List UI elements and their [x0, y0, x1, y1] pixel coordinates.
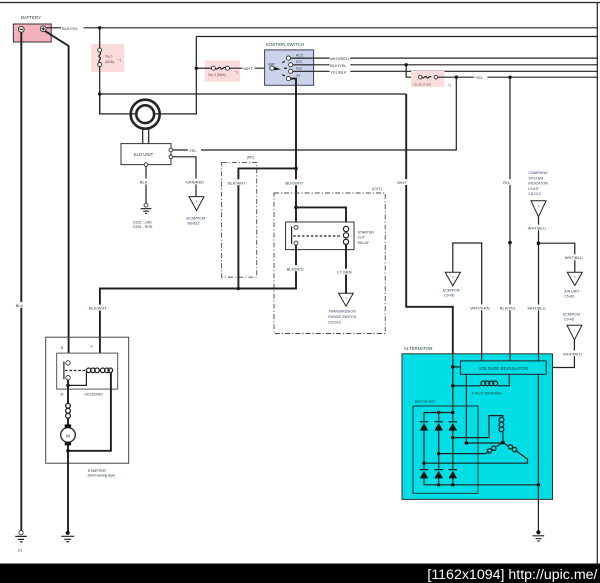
svg-text:TRANSMISSION: TRANSMISSION [328, 310, 356, 314]
svg-text:*1: *1 [118, 59, 121, 63]
svg-text:YEL: YEL [503, 180, 511, 185]
connector arrow ECM/PCM (alternator FR) [567, 325, 582, 340]
connector arrow A/N unit [567, 272, 582, 285]
node motor ground junction [66, 449, 70, 453]
svg-text:ALTERNATOR: ALTERNATOR [404, 346, 433, 351]
svg-text:LIGHT: LIGHT [528, 187, 539, 191]
svg-text:RECTIFIER: RECTIFIER [415, 399, 436, 404]
svg-text:(MT): (MT) [247, 156, 255, 160]
svg-text:M: M [60, 393, 63, 397]
wire WHT/RED regulator to ECM/PCM [546, 340, 574, 368]
svg-text:WHT/BLU: WHT/BLU [528, 306, 546, 311]
starter M1 outer box [46, 337, 129, 463]
stator neutral node [501, 441, 505, 445]
wire BLK/YEL battery feed [46, 27, 597, 29]
wire main feed horizontal to alternator WHT [100, 93, 407, 95]
svg-text:YEL: YEL [189, 148, 197, 153]
wire WHT/RED ACC output [291, 57, 598, 59]
wire battery negative BLK [20, 32, 22, 530]
bottom banner [0, 564, 600, 583]
connector arrow ECM/PCM (alternator C) [445, 272, 460, 286]
diode D3 [449, 413, 458, 422]
svg-text:BLK: BLK [16, 303, 24, 308]
ground G1 battery [19, 531, 23, 535]
wire motor to ground [67, 445, 69, 531]
svg-text:WHT/BLU: WHT/BLU [565, 255, 583, 260]
ELD unit [121, 144, 171, 165]
rectifier top bus [424, 412, 453, 414]
svg-text:FIELD WINDING: FIELD WINDING [472, 391, 501, 396]
node fuse No.1 lower junction [98, 92, 101, 95]
diode D5 [434, 471, 443, 479]
starter motor brushes [65, 424, 71, 429]
wire regulator to stator neutral [466, 374, 503, 443]
diode D1 [420, 413, 429, 422]
svg-text:YEL: YEL [476, 75, 484, 80]
ground starter [66, 531, 70, 535]
stator coil V [486, 443, 503, 454]
node M terminal [66, 384, 70, 388]
svg-text:VOLTAGE REGULATOR: VOLTAGE REGULATOR [479, 366, 529, 371]
relay contact [294, 225, 298, 229]
svg-text:CUT: CUT [358, 236, 366, 240]
connector arrow charging system indicator light [531, 201, 546, 217]
wire BLK/YEL IG1 output [293, 64, 598, 66]
wire YEL/BLK IG2 output [293, 70, 598, 72]
svg-text:G201 : LHD: G201 : LHD [133, 220, 152, 224]
battery negative terminal [18, 26, 24, 32]
svg-text:RELAY: RELAY [358, 241, 370, 245]
wire regulator ground leg [537, 374, 539, 485]
wire WHT/BLU to regulator [538, 217, 540, 361]
wire YEL / BLK/YEL to regulator [509, 77, 511, 361]
svg-text:(80A): (80A) [105, 60, 114, 64]
svg-text:BLK/YEL: BLK/YEL [330, 63, 347, 68]
svg-text:BLK/YEL: BLK/YEL [500, 306, 517, 311]
battery positive terminal [40, 26, 46, 32]
svg-text:[1162x1094] http://upic.me/: [1162x1094] http://upic.me/ [427, 567, 597, 583]
top page border [0, 2, 600, 4]
terminal ST [286, 77, 290, 81]
stator phase W tap [422, 462, 425, 465]
wire ELD sensor leads [143, 127, 149, 144]
diode D2 [434, 413, 443, 422]
ELD current sensor donut [131, 100, 160, 129]
svg-text:No.15 (7.5A): No.15 (7.5A) [414, 83, 432, 87]
svg-text:SOLENOID: SOLENOID [84, 393, 103, 397]
ground alternator [536, 530, 540, 534]
svg-text:WHT/RED: WHT/RED [563, 351, 582, 356]
voltage regulator [461, 361, 547, 374]
solenoid pull-in coil [86, 368, 91, 373]
wire BLK/RED relay contact to starter [100, 245, 296, 371]
wire battery positive cable to starter [45, 31, 69, 361]
wire alternator case ground [537, 485, 539, 531]
wire YEL down to ELD unit [173, 77, 457, 150]
wire upper bus [196, 36, 597, 38]
wire relay coil feed [296, 207, 346, 226]
svg-text:M: M [66, 433, 70, 439]
starter cut relay K1 [286, 222, 354, 250]
wires entering alternator [453, 354, 539, 367]
svg-text:IGNITION SWITCH: IGNITION SWITCH [266, 42, 304, 47]
diode D4 [420, 471, 429, 479]
svg-text:ST: ST [296, 74, 301, 78]
connector arrow transmission range switch [339, 293, 354, 306]
terminal ACC [286, 56, 290, 60]
svg-text:No.1: No.1 [105, 54, 113, 58]
svg-text:C9-4D: C9-4D [564, 318, 575, 322]
starter motor [61, 428, 76, 443]
ignition wiper [274, 67, 281, 71]
svg-text:CHARGING: CHARGING [528, 171, 548, 175]
stator phase U tap [451, 436, 454, 439]
node field winding junction [451, 384, 455, 388]
solenoid hold-in coil [100, 368, 105, 373]
node MT branch [294, 167, 298, 171]
svg-text:ELD UNIT: ELD UNIT [134, 152, 154, 157]
svg-text:C8-C12: C8-C12 [528, 192, 540, 196]
fuse No.3 (50A) [205, 61, 240, 82]
wire BLK ELD ground lead [145, 166, 147, 203]
svg-text:BLK/YEL: BLK/YEL [62, 26, 79, 31]
svg-text:BLK/WHT: BLK/WHT [286, 180, 304, 185]
svg-text:WHT/RED: WHT/RED [330, 56, 349, 61]
svg-text:WHT/GRN: WHT/GRN [470, 306, 489, 311]
svg-text:WHT/BLU: WHT/BLU [528, 225, 546, 230]
stator phase V tap [437, 452, 440, 455]
wire LT GRN to transmission range switch [345, 244, 347, 293]
svg-text:BLK/WHT: BLK/WHT [89, 306, 107, 311]
svg-text:ECM/PCM: ECM/PCM [187, 216, 206, 221]
relay coil [343, 226, 348, 231]
terminal IG1 [289, 63, 293, 67]
svg-text:(Field winding type): (Field winding type) [88, 474, 116, 478]
svg-text:IG2: IG2 [296, 67, 302, 71]
node fuse No.15 branch on BLK/YEL [405, 63, 408, 66]
node fuse No.3 branch [195, 67, 198, 70]
wire regulator to rectifier [452, 367, 454, 413]
wire hold-in coil return [68, 372, 111, 451]
svg-text:C9-4D: C9-4D [444, 294, 455, 298]
rectifier bottom bus [424, 484, 538, 486]
svg-text:C5-8D: C5-8D [564, 295, 575, 299]
wire pull-in coil return to M [68, 372, 86, 386]
solenoid contact [66, 361, 70, 365]
svg-text:(CVT): (CVT) [372, 187, 382, 191]
connector arrow ECM/PCM (ELD) [189, 197, 204, 211]
wire M terminal down [67, 380, 69, 404]
terminal IG2 [289, 69, 293, 73]
node YEL to alternator branch [508, 76, 511, 79]
svg-text:*1: *1 [235, 70, 238, 74]
svg-text:G1: G1 [18, 549, 23, 553]
svg-text:BLK/RED: BLK/RED [287, 266, 304, 271]
svg-text:LT GRN: LT GRN [337, 270, 351, 275]
svg-text:WHT: WHT [397, 180, 407, 185]
wire GRN/RED to ECM/PCM [173, 157, 196, 197]
svg-text:YEL/BLK: YEL/BLK [330, 69, 347, 74]
starter field winding [66, 403, 71, 408]
wire WHT alternator output [406, 94, 453, 367]
node relay coil branch [294, 206, 298, 210]
CVT option dashed box [274, 193, 385, 334]
node YEL to ELD loop [455, 76, 458, 79]
svg-text:ECM/PCM: ECM/PCM [443, 289, 460, 293]
svg-text:BATTERY: BATTERY [21, 15, 41, 20]
svg-text:STARTER: STARTER [358, 230, 375, 234]
wire BLK/WHT MT branch [238, 168, 296, 288]
svg-text:G251 : RHD: G251 : RHD [133, 225, 153, 229]
fuse No.15 (7.5A) [406, 65, 418, 77]
field winding L1 [497, 374, 509, 386]
svg-text:BLK: BLK [140, 180, 148, 185]
starter solenoid box [57, 353, 118, 389]
node YEL to BLK/YEL splice [508, 241, 512, 245]
svg-text:*1: *1 [448, 83, 451, 87]
svg-text:STARTER: STARTER [88, 468, 106, 473]
node WHT/BLU branch [537, 241, 541, 245]
stator coil W [503, 443, 520, 454]
svg-text:WHT: WHT [243, 66, 253, 71]
diode D6 [449, 471, 458, 479]
right page border [596, 3, 598, 564]
node WHT to regulator [451, 365, 455, 369]
svg-text:BLK/WHT: BLK/WHT [228, 180, 246, 185]
svg-text:GRN/RED: GRN/RED [186, 180, 205, 185]
wire WHT/BLU branch to A/N unit [539, 243, 575, 272]
stator coil U [499, 417, 504, 422]
fuse No.1 (80A) [91, 44, 124, 72]
node battery feed junction [98, 26, 101, 29]
wire ST to starter cut relay [291, 79, 296, 226]
svg-text:ACC: ACC [296, 54, 304, 58]
svg-text:No.3 (50A): No.3 (50A) [208, 73, 225, 77]
wire ELD sense loop [100, 37, 197, 114]
svg-text:ECM/PCM: ECM/PCM [563, 312, 580, 316]
svg-text:SYSTEM: SYSTEM [528, 176, 543, 180]
ground G201 [144, 203, 148, 207]
svg-text:RANGE SWITCH: RANGE SWITCH [328, 315, 356, 319]
svg-text:A/N UNIT: A/N UNIT [564, 290, 580, 294]
ignition switch SW1 [265, 50, 314, 85]
svg-text:D3-D13: D3-D13 [328, 321, 340, 325]
battery B1 [13, 24, 51, 42]
svg-text:IG1: IG1 [296, 60, 302, 64]
wire WHT/GRN ECM/PCM loop [453, 243, 482, 361]
node MT joins starter feed [237, 287, 241, 291]
svg-text:B6-B12: B6-B12 [188, 222, 200, 226]
node regulator stator sense [465, 441, 469, 445]
MT option dashed box [222, 163, 257, 278]
svg-text:INDICATOR: INDICATOR [528, 182, 548, 186]
